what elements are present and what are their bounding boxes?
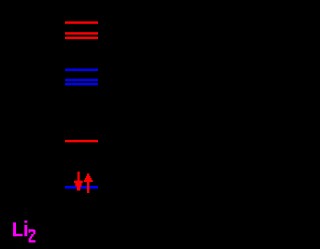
level pi2p upper (blue pair line 1) — [65, 79, 98, 81]
level sigma*2p (red, top single) — [65, 21, 98, 23]
level pi2p lower (blue pair line 2) — [65, 83, 98, 85]
label glyph subscript 2 — [29, 229, 36, 242]
electron arrow up (right) — [84, 174, 93, 194]
electron arrow down (left) — [74, 172, 83, 191]
label glyph letter i — [24, 221, 27, 237]
level pi*2p upper (red pair line 1) — [65, 32, 98, 34]
level sigma2p (blue single) — [65, 69, 98, 71]
level pi*2p lower (red pair line 2) — [65, 37, 98, 39]
molecule label Li2 (drawn glyphs, letter L) — [13, 222, 23, 236]
level sigma*2s (red single lower) — [65, 140, 98, 142]
level sigma2s (blue, occupied) — [65, 186, 98, 189]
